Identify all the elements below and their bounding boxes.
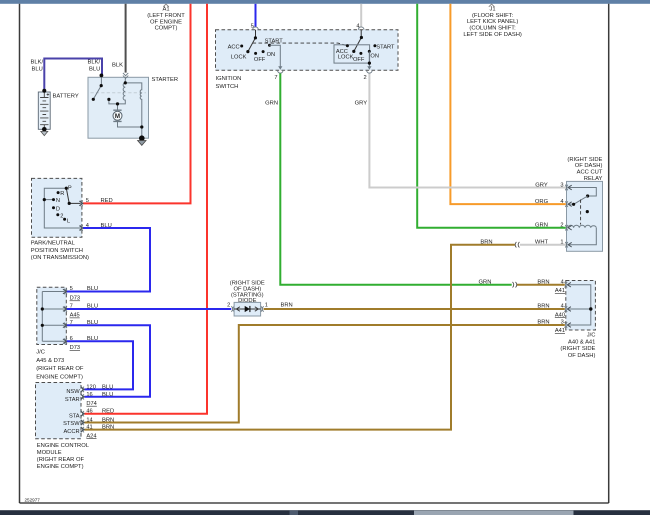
svg-text:7: 7 bbox=[70, 320, 73, 326]
junction connector J/C A45 and D73 bbox=[37, 287, 67, 344]
starting diode label bbox=[230, 281, 265, 304]
connector A1 chevron bbox=[163, 4, 169, 7]
wire BLU J/C A45 pin 6 to ECM pin 120 bbox=[67, 341, 134, 389]
wire ORG from J1 to ACC cut relay pin 4 bbox=[450, 4, 565, 204]
park/neutral position switch S2 bbox=[32, 178, 82, 237]
svg-text:A41: A41 bbox=[555, 328, 565, 334]
battery B1 bbox=[38, 89, 50, 130]
svg-text:D73: D73 bbox=[70, 296, 80, 302]
svg-text:BLK: BLK bbox=[112, 62, 123, 68]
ECM pin 16 connector bbox=[81, 394, 84, 400]
svg-text:N: N bbox=[56, 198, 60, 204]
svg-text:POSITION SWITCH: POSITION SWITCH bbox=[31, 248, 83, 254]
svg-text:7: 7 bbox=[70, 304, 73, 310]
motor brushes bbox=[113, 110, 121, 121]
J/C A40 pin 3 connector bbox=[565, 322, 568, 328]
ignition pin 4 connector bbox=[358, 27, 364, 30]
svg-text:5: 5 bbox=[70, 286, 73, 292]
ignition pin 5 connector bbox=[253, 27, 259, 30]
junction connector J/C A40 and A41 bbox=[566, 281, 596, 331]
J/C A45 pin 6 connector bbox=[64, 338, 67, 344]
relay armature bbox=[568, 196, 588, 204]
svg-text:BLU: BLU bbox=[87, 320, 98, 326]
engine control module U1 bbox=[36, 383, 82, 439]
svg-text:46: 46 bbox=[86, 409, 92, 415]
wire BLU J/C A45 pin 7 to ECM pin 16 bbox=[67, 325, 151, 397]
wire BLK/BLU battery to starter bbox=[44, 59, 102, 91]
starter internal BLK lead bbox=[124, 78, 126, 83]
svg-text:BATTERY: BATTERY bbox=[53, 94, 79, 100]
J/C A45 pin 7 lower connector bbox=[64, 323, 67, 329]
svg-text:BLU: BLU bbox=[87, 304, 98, 310]
relay pin 3 connector bbox=[565, 185, 568, 191]
starter contact to motor bbox=[109, 99, 118, 104]
top browser bar bbox=[0, 0, 650, 4]
svg-text:(RIGHT SIDE: (RIGHT SIDE bbox=[560, 346, 595, 352]
svg-text:COMPT): COMPT) bbox=[155, 26, 178, 32]
relay pin 4 connector bbox=[565, 201, 568, 207]
svg-text:ENGINE CONTROL: ENGINE CONTROL bbox=[37, 443, 90, 449]
svg-text:4: 4 bbox=[356, 24, 359, 30]
svg-text:D: D bbox=[56, 206, 60, 212]
wire BRN ECM pin 14 to J/C A41 pin 3 bbox=[84, 325, 565, 423]
svg-text:ENGINE COMPT): ENGINE COMPT) bbox=[37, 464, 84, 470]
pnp N contact stub bbox=[44, 199, 53, 201]
svg-text:R: R bbox=[60, 191, 64, 197]
svg-text:ON: ON bbox=[370, 54, 379, 60]
svg-text:D73: D73 bbox=[70, 345, 80, 351]
svg-text:BRN: BRN bbox=[480, 240, 492, 246]
svg-text:BLU: BLU bbox=[87, 336, 98, 342]
svg-text:SWITCH: SWITCH bbox=[216, 84, 239, 90]
svg-text:GRN: GRN bbox=[535, 223, 548, 229]
wire BLU top to ignition switch pin 5 bbox=[255, 4, 257, 27]
svg-text:BLU: BLU bbox=[102, 384, 113, 390]
motor M1 leads bbox=[118, 104, 142, 127]
svg-text:A1: A1 bbox=[162, 7, 169, 13]
svg-text:GRY: GRY bbox=[535, 182, 548, 188]
svg-text:14: 14 bbox=[86, 417, 92, 423]
svg-text:BRN: BRN bbox=[102, 425, 114, 431]
inline connector (( on BRN-WHT wire bbox=[515, 242, 519, 248]
starter contact arm bbox=[93, 75, 101, 99]
ECM pin 14 connector bbox=[81, 420, 84, 426]
pnp pin arrowheads bbox=[79, 201, 83, 206]
motor M1 bbox=[113, 111, 122, 120]
J/C A40 pin 4 middle connector bbox=[565, 306, 568, 312]
svg-text:4: 4 bbox=[560, 199, 563, 205]
ECM pin 46 connector bbox=[81, 411, 84, 417]
ignition pin 7 connector bbox=[278, 70, 284, 73]
svg-text:2: 2 bbox=[560, 223, 563, 229]
svg-text:120: 120 bbox=[86, 384, 96, 390]
svg-text:A40: A40 bbox=[555, 312, 565, 318]
ignition right rotor lead bbox=[360, 30, 362, 38]
ignition left rotor lead bbox=[255, 30, 257, 38]
J/C A45 pin 5 connector bbox=[64, 289, 67, 295]
diode pin 2 connector bbox=[231, 306, 234, 312]
svg-text:BRN: BRN bbox=[537, 320, 549, 326]
wire GRN from J1 to ACC cut relay pin 2 bbox=[417, 4, 566, 228]
relay pin 2 connector bbox=[565, 225, 568, 231]
svg-text:A45 & D73: A45 & D73 bbox=[36, 358, 64, 364]
wire BRN starting diode pin 1 to J/C A40 pin 4 bbox=[264, 308, 565, 310]
diode internal line with arrows bbox=[234, 308, 261, 310]
svg-text:ENGINE COMPT): ENGINE COMPT) bbox=[36, 374, 83, 380]
svg-text:ORG: ORG bbox=[535, 199, 549, 205]
svg-text:BLU: BLU bbox=[32, 67, 43, 73]
ECM pin 41 connector bbox=[81, 427, 84, 433]
ignition right ON contact to pin 2 bbox=[368, 51, 370, 66]
ECM pin 120 connector bbox=[81, 387, 84, 393]
svg-text:PARK/NEUTRAL: PARK/NEUTRAL bbox=[31, 241, 76, 247]
connector J1 chevron bbox=[489, 4, 495, 7]
svg-text:OF DASH): OF DASH) bbox=[575, 163, 603, 169]
svg-text:M: M bbox=[115, 113, 120, 120]
svg-text:OFF: OFF bbox=[254, 57, 266, 63]
wire GRY top to ignition switch pin 4 bbox=[360, 4, 362, 27]
ignition right rotor arm bbox=[354, 38, 362, 52]
svg-text:L: L bbox=[67, 219, 70, 225]
starter motor assembly bbox=[88, 73, 149, 138]
svg-text:BRN: BRN bbox=[281, 303, 293, 309]
svg-text:LOCK: LOCK bbox=[338, 54, 354, 60]
pnp pin 4 connector bbox=[80, 225, 83, 231]
relay actuator dashed bbox=[580, 200, 582, 225]
ECM pin arrowheads bbox=[81, 387, 85, 392]
ignition mechanical link bbox=[253, 43, 348, 46]
connector arrows BLK entry bbox=[123, 73, 128, 78]
svg-text:J/C: J/C bbox=[587, 332, 596, 338]
svg-text:(FLOOR SHIFT:: (FLOOR SHIFT: bbox=[472, 13, 514, 19]
svg-text:16: 16 bbox=[86, 392, 92, 398]
ignition left START contact to pin 7 bbox=[270, 45, 281, 66]
starting diode D1 bbox=[227, 302, 268, 316]
svg-text:GRN: GRN bbox=[265, 100, 278, 106]
svg-text:OF DASH): OF DASH) bbox=[568, 353, 596, 359]
svg-text:A24: A24 bbox=[86, 433, 96, 439]
svg-text:A41: A41 bbox=[555, 288, 565, 294]
inline connector )) on GRN-BRN wire bbox=[513, 282, 517, 288]
wire RED from top to park/neutral switch pin 5 bbox=[83, 4, 191, 204]
svg-text:41: 41 bbox=[86, 425, 92, 431]
diode pin 1 connector bbox=[261, 306, 264, 312]
wire BRN connector to J/C A41 pin 4 bbox=[517, 284, 565, 286]
svg-text:BRN: BRN bbox=[537, 279, 549, 285]
svg-text:P: P bbox=[68, 186, 72, 192]
svg-text:(COLUMN SHIFT:: (COLUMN SHIFT: bbox=[469, 26, 516, 32]
ignition left position contacts bbox=[240, 45, 243, 48]
wire BRN ECM pin 41 up to connector bbox=[84, 245, 515, 430]
pnp rotor arm bbox=[66, 188, 80, 203]
relay pin arrowheads bbox=[568, 185, 572, 190]
svg-text:3: 3 bbox=[560, 182, 563, 188]
pnp internal bus bbox=[44, 188, 80, 228]
J/C A45 pin arrowheads bbox=[63, 289, 67, 294]
svg-text:BLU: BLU bbox=[102, 392, 113, 398]
mechanical link dashed bbox=[91, 92, 147, 94]
svg-text:4: 4 bbox=[561, 304, 564, 310]
svg-text:ACC CUT: ACC CUT bbox=[577, 170, 603, 176]
wire BLU J/C A45 pin 7 to starting diode pin 2 bbox=[67, 308, 232, 310]
svg-text:OF ENGINE: OF ENGINE bbox=[150, 19, 182, 25]
J/C A45 pin 7 connector bbox=[64, 306, 67, 312]
svg-text:RED: RED bbox=[101, 198, 113, 204]
J/C A40 pin 4 upper connector bbox=[565, 282, 568, 288]
relay fixed contact path bbox=[568, 188, 596, 197]
svg-text:BLU: BLU bbox=[89, 67, 100, 73]
svg-text:2: 2 bbox=[227, 303, 230, 309]
svg-text:J1: J1 bbox=[490, 7, 496, 13]
ignition switch S1 bbox=[216, 30, 399, 71]
ignition left rotor arm bbox=[248, 38, 256, 52]
svg-text:2: 2 bbox=[364, 75, 367, 81]
ignition right ACC-LOCK box bbox=[334, 45, 370, 63]
svg-text:GRY: GRY bbox=[355, 100, 368, 106]
svg-text:252977: 252977 bbox=[25, 498, 41, 503]
svg-text:RELAY: RELAY bbox=[584, 176, 603, 182]
svg-text:D74: D74 bbox=[86, 401, 96, 407]
svg-text:3: 3 bbox=[561, 320, 564, 326]
svg-text:STA: STA bbox=[69, 414, 80, 420]
svg-text:WHT: WHT bbox=[535, 240, 549, 246]
svg-text:LEFT SIDE OF DASH): LEFT SIDE OF DASH) bbox=[463, 32, 522, 38]
svg-text:BLU: BLU bbox=[87, 286, 98, 292]
svg-text:5: 5 bbox=[251, 24, 254, 30]
svg-text:LEFT KICK PANEL): LEFT KICK PANEL) bbox=[467, 19, 518, 25]
svg-text:START: START bbox=[376, 45, 395, 51]
svg-text:ON: ON bbox=[267, 52, 276, 58]
svg-text:BRN: BRN bbox=[102, 417, 114, 423]
svg-text:A45: A45 bbox=[70, 313, 80, 319]
svg-text:(RIGHT REAR OF: (RIGHT REAR OF bbox=[37, 457, 85, 463]
J/C A40 pin arrowheads bbox=[567, 282, 571, 287]
svg-text:DIODE: DIODE bbox=[238, 298, 256, 304]
solenoid pull-in coil bbox=[118, 83, 126, 104]
wire GRN ignition pin 7 down and right bbox=[280, 73, 511, 285]
svg-text:IGNITION: IGNITION bbox=[216, 76, 242, 82]
connector A1 label bbox=[147, 7, 185, 32]
ground at starter bbox=[139, 135, 145, 141]
svg-text:2: 2 bbox=[60, 214, 63, 220]
svg-text:(RIGHT REAR OF: (RIGHT REAR OF bbox=[36, 366, 84, 372]
svg-text:MODULE: MODULE bbox=[37, 450, 62, 456]
svg-text:A40 & A41: A40 & A41 bbox=[568, 339, 595, 345]
svg-text:ACC: ACC bbox=[228, 44, 240, 50]
J/C A40 label bbox=[560, 332, 595, 359]
bottom taskbar bbox=[0, 510, 650, 515]
ACC cut relay label bbox=[567, 157, 602, 182]
svg-text:BLU: BLU bbox=[101, 223, 112, 229]
svg-text:(ON TRANSMISSION): (ON TRANSMISSION) bbox=[31, 255, 89, 261]
svg-text:BLK/: BLK/ bbox=[31, 60, 44, 66]
J/C A40 internal bus bbox=[567, 285, 591, 325]
wire BLK starter to connector A1 top bbox=[125, 4, 127, 73]
J/C A45 bus bbox=[42, 292, 65, 342]
svg-text:(RIGHT SIDE: (RIGHT SIDE bbox=[567, 157, 602, 163]
wire WHT connector to relay pin 1 bbox=[520, 244, 566, 246]
svg-text:4: 4 bbox=[561, 279, 564, 285]
svg-text:ACCR: ACCR bbox=[63, 429, 79, 435]
connector J1 label bbox=[463, 7, 522, 38]
svg-text:NSW: NSW bbox=[66, 389, 80, 395]
svg-text:1: 1 bbox=[265, 303, 268, 309]
relay coil bbox=[568, 225, 596, 227]
svg-text:STSW: STSW bbox=[63, 421, 80, 427]
pnp position contacts bbox=[57, 191, 60, 194]
svg-text:(LEFT FRONT: (LEFT FRONT bbox=[147, 13, 185, 19]
wire GRY ignition pin 2 to relay pin 3 bbox=[369, 73, 565, 188]
svg-text:STAR: STAR bbox=[65, 397, 80, 403]
ground at battery bbox=[42, 127, 47, 132]
svg-text:STARTER: STARTER bbox=[152, 77, 179, 83]
relay pin 1 connector bbox=[565, 242, 568, 248]
wire BLU park/neutral pin 4 to J/C A45 pin 5 bbox=[67, 228, 151, 292]
pnp pin 5 connector bbox=[80, 201, 83, 207]
svg-text:LOCK: LOCK bbox=[231, 55, 247, 61]
solenoid hold-in coil branch bbox=[125, 83, 142, 138]
svg-text:1: 1 bbox=[560, 240, 563, 246]
ACC cut relay K1 bbox=[567, 181, 603, 251]
svg-text:BRN: BRN bbox=[537, 304, 549, 310]
svg-text:6: 6 bbox=[70, 336, 73, 342]
svg-text:OFF: OFF bbox=[353, 57, 365, 63]
svg-text:4: 4 bbox=[86, 223, 89, 229]
svg-text:GRN: GRN bbox=[479, 279, 492, 285]
svg-text:7: 7 bbox=[274, 75, 277, 81]
wire RED from top to ECM pin 46 bbox=[84, 4, 207, 414]
svg-text:BLK/: BLK/ bbox=[88, 60, 101, 66]
diode symbol bbox=[245, 306, 250, 312]
svg-text:5: 5 bbox=[86, 198, 89, 204]
svg-text:J/C: J/C bbox=[36, 350, 45, 356]
junction dots starter bbox=[100, 74, 104, 78]
ignition pin 2 connector bbox=[367, 70, 373, 73]
svg-text:RED: RED bbox=[102, 409, 114, 415]
